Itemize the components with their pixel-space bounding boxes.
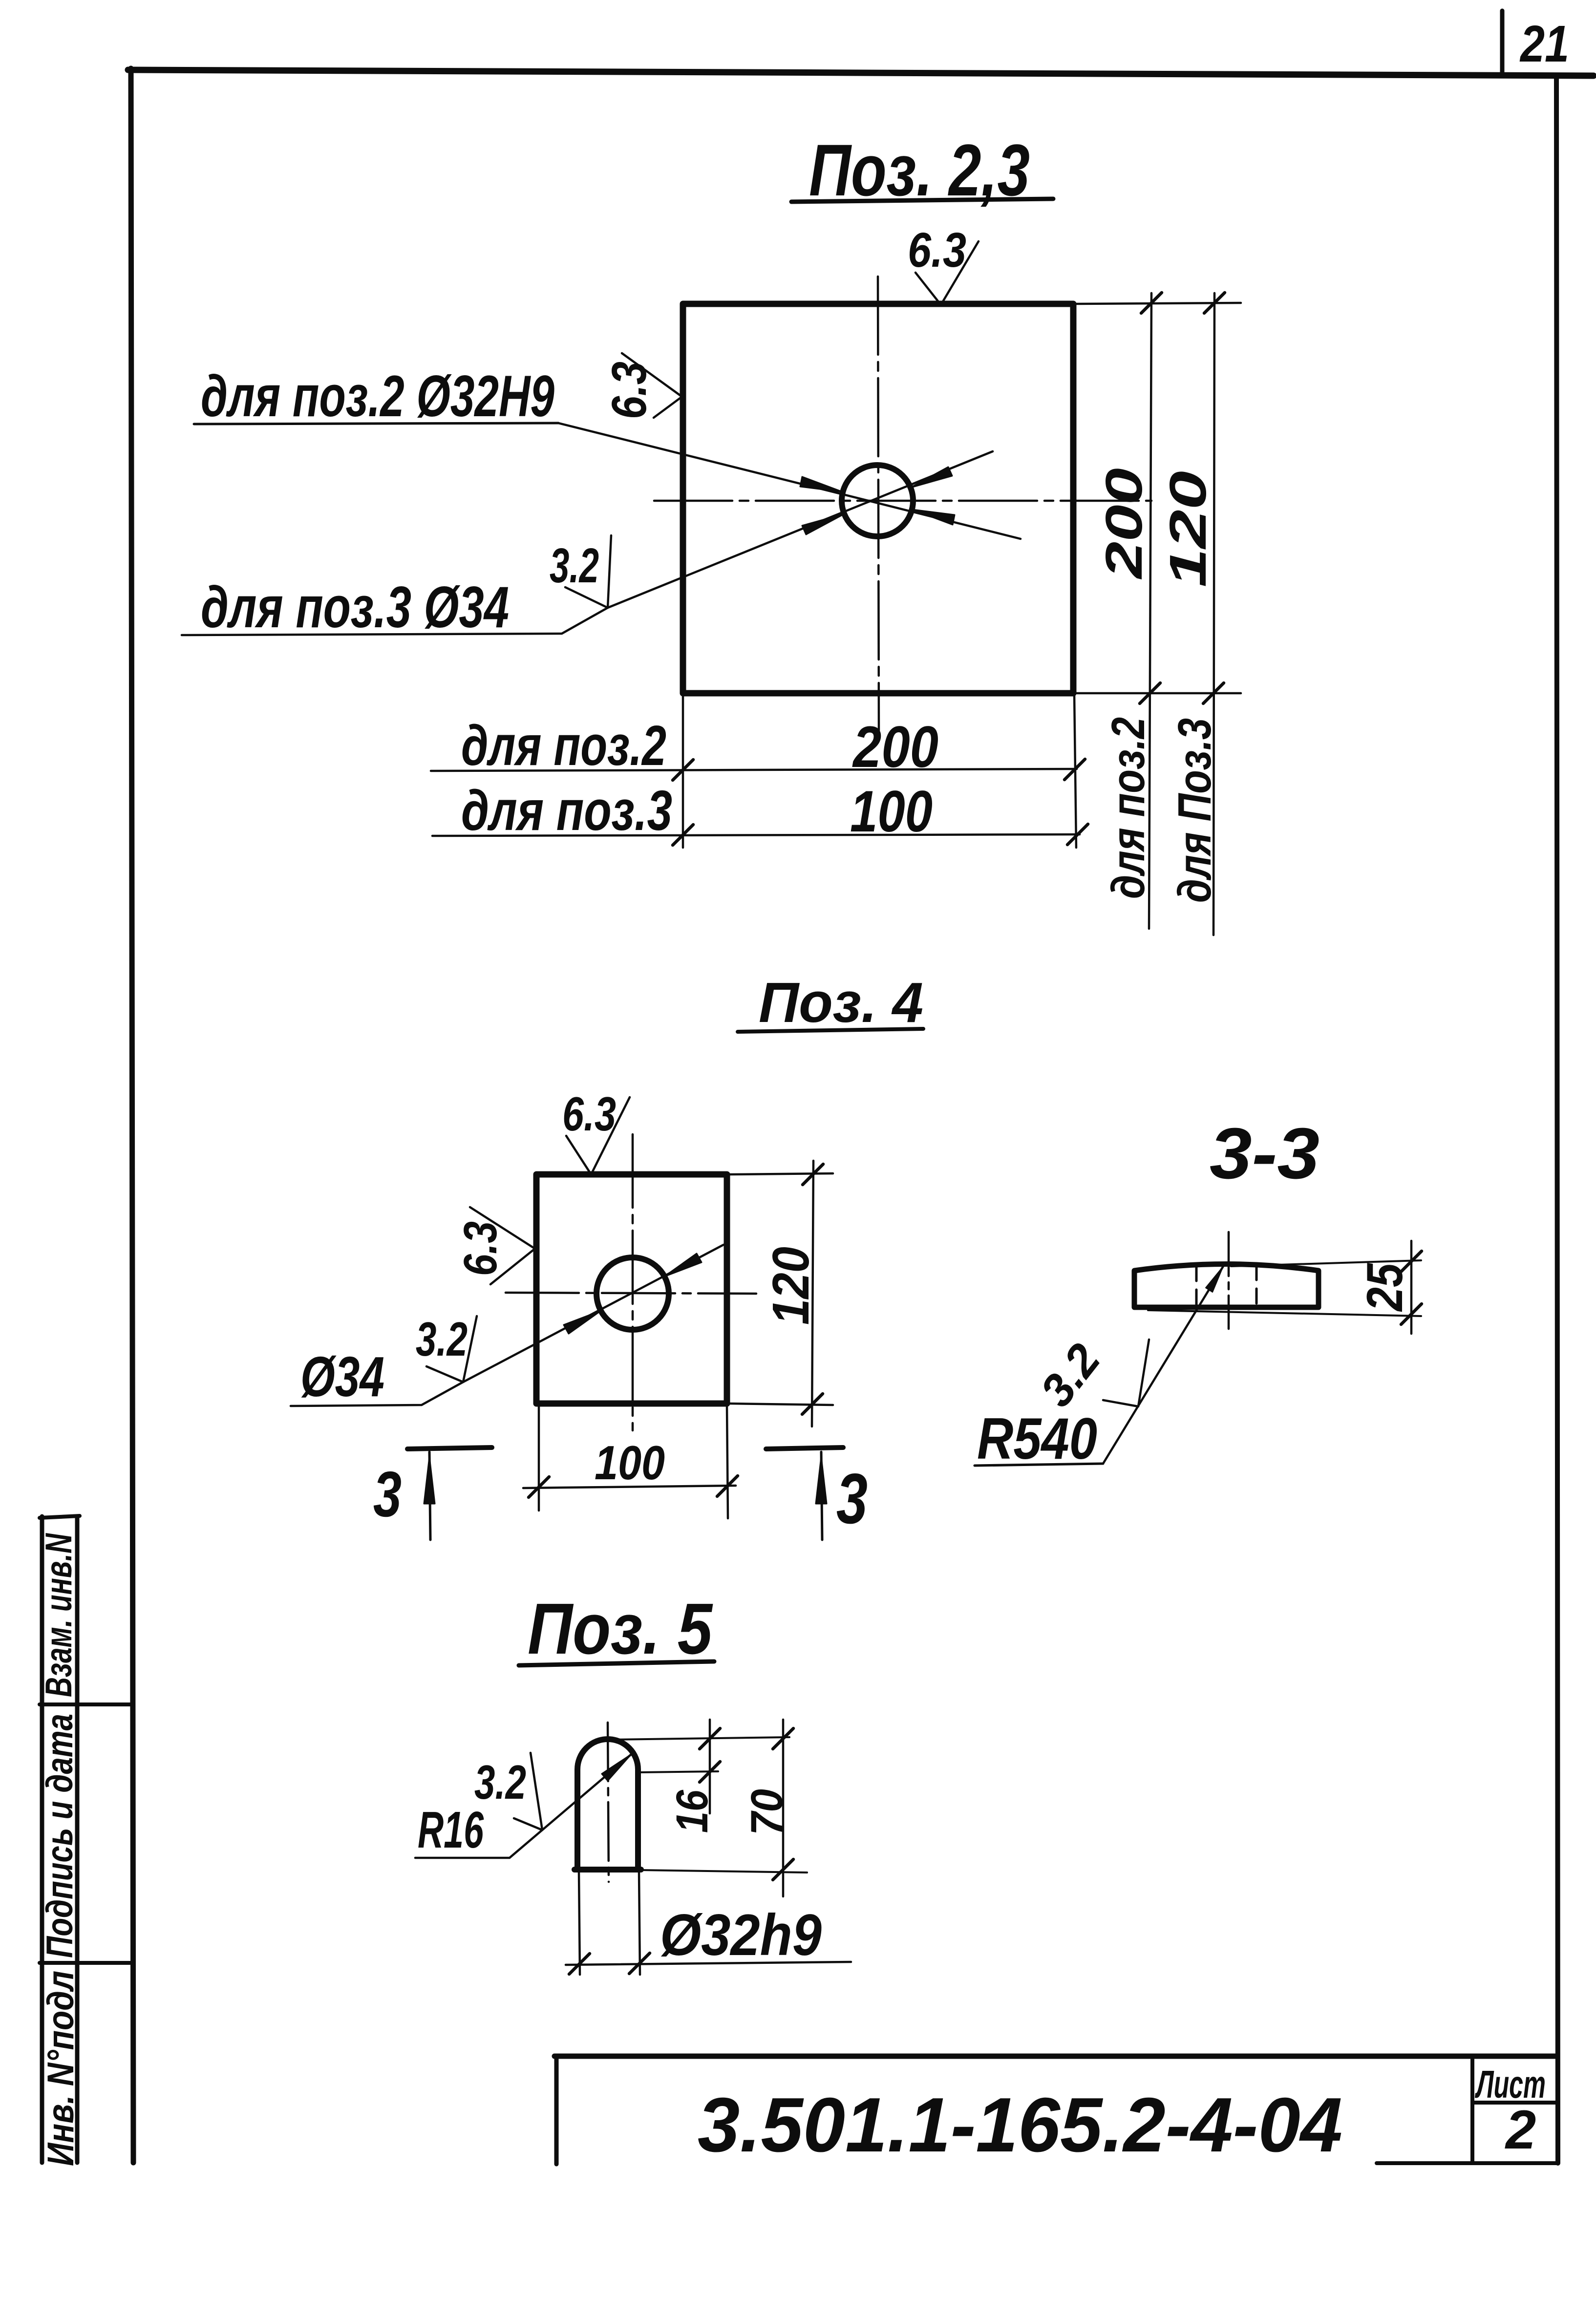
title block left edge xyxy=(554,2056,559,2164)
svg-text:Поз. 4: Поз. 4 xyxy=(759,971,923,1034)
tick 100 right xyxy=(717,1476,738,1496)
section mark right bar xyxy=(766,1447,843,1449)
section mark right line xyxy=(821,1452,822,1540)
tick dim1 left xyxy=(673,760,693,780)
arrow A left xyxy=(800,477,843,492)
dim 100 ext right xyxy=(727,1405,728,1518)
bottom dim line 1 xyxy=(431,769,1077,771)
dim 120 line xyxy=(812,1161,813,1426)
tick 16 top xyxy=(700,1728,720,1749)
лист cell horizontal divider xyxy=(1472,2101,1556,2105)
arrow Ф34 lower-left xyxy=(564,1311,601,1334)
dim line Ф32h9 xyxy=(566,1962,851,1965)
pin centerline xyxy=(608,1723,609,1882)
svg-text:3: 3 xyxy=(373,1458,402,1530)
tick 16 bottom xyxy=(700,1762,720,1782)
tick dim1 right xyxy=(1064,759,1085,780)
svg-text:6.3: 6.3 xyxy=(602,362,657,419)
tick Ф32 left xyxy=(569,1954,590,1974)
R540 arrow xyxy=(1206,1266,1223,1292)
tick 25 top xyxy=(1401,1251,1422,1272)
svg-text:21: 21 xyxy=(1519,15,1569,73)
right dim extension top xyxy=(1075,303,1241,304)
tick 100 left xyxy=(529,1477,549,1497)
roughness 6.3 top check xyxy=(915,241,979,305)
tick 200 top xyxy=(1141,293,1162,313)
svg-text:120: 120 xyxy=(1159,471,1217,587)
R16 arrow xyxy=(602,1755,631,1781)
leader line для поз.3 xyxy=(182,451,993,635)
section mark left bar xyxy=(407,1447,492,1449)
svg-text:100: 100 xyxy=(850,779,933,844)
roughness 3.2 check Поз.5 xyxy=(514,1753,542,1830)
section mark left arrow xyxy=(424,1457,435,1504)
svg-text:для поз.2: для поз.2 xyxy=(461,714,666,777)
svg-text:Инв. N°подл: Инв. N°подл xyxy=(40,1971,82,2166)
arrow Ф34 upper-right xyxy=(664,1254,702,1277)
svg-text:200: 200 xyxy=(852,714,938,780)
svg-text:для поз.3 Ø34: для поз.3 Ø34 xyxy=(201,574,509,640)
bottom ext line left xyxy=(682,693,684,848)
stamp divider 2 xyxy=(40,1961,131,1965)
hidden hole line right xyxy=(1256,1265,1258,1310)
tick 120 top xyxy=(1204,293,1225,313)
svg-text:100: 100 xyxy=(595,1436,665,1489)
svg-text:6.3: 6.3 xyxy=(908,223,966,277)
svg-text:6.3: 6.3 xyxy=(454,1221,507,1276)
roughness 6.3 top check Поз.4 xyxy=(566,1097,630,1174)
svg-text:70: 70 xyxy=(742,1789,792,1835)
dim 100 line xyxy=(523,1486,736,1488)
ext below left xyxy=(579,1872,580,1975)
лист cell vertical divider xyxy=(1470,2056,1474,2163)
svg-text:25: 25 xyxy=(1357,1262,1413,1312)
stamp column left line xyxy=(40,1516,44,2163)
svg-text:3.501.1-165.2-4-04: 3.501.1-165.2-4-04 xyxy=(698,2082,1342,2168)
svg-text:R540: R540 xyxy=(977,1406,1097,1471)
tick 200 bottom xyxy=(1140,683,1160,703)
dim 100 ext left xyxy=(538,1405,540,1511)
frame top border xyxy=(128,70,1594,76)
title Поз.4 underline xyxy=(738,1029,923,1032)
title block bottom line partial xyxy=(1377,2161,1556,2165)
tick dim2 right xyxy=(1067,824,1088,845)
roughness 6.3 left check xyxy=(622,353,682,418)
bottom ext line right xyxy=(1074,693,1076,848)
stamp divider 1 xyxy=(40,1702,131,1706)
svg-text:Ø34: Ø34 xyxy=(300,1345,384,1408)
stamp top cap xyxy=(40,1516,80,1518)
dim 25 ext bottom xyxy=(1148,1310,1421,1316)
dim 120 ext bottom xyxy=(729,1404,833,1405)
tick dim2 left xyxy=(673,825,693,845)
hidden hole line left xyxy=(1195,1266,1198,1310)
roughness 3.2 check Поз.4 xyxy=(426,1316,477,1382)
svg-text:для поз.2: для поз.2 xyxy=(1102,717,1154,899)
tick Ф32 right xyxy=(629,1953,650,1974)
vertical centerline xyxy=(878,277,879,730)
dim 16 line xyxy=(709,1720,711,1813)
arrow B lower-left xyxy=(802,514,844,534)
dim 25 ext top xyxy=(1231,1260,1421,1266)
svg-text:3.2: 3.2 xyxy=(416,1312,468,1366)
leader line для поз.2 xyxy=(558,423,1021,539)
leader Ф34 xyxy=(291,1245,724,1406)
dim 25 line xyxy=(1410,1241,1413,1334)
R540 underline xyxy=(975,1464,1103,1466)
bottom dim line 2 xyxy=(432,834,1080,836)
R540 leader xyxy=(1103,1266,1223,1464)
roughness 6.3 left check Поз.4 xyxy=(470,1207,535,1284)
svg-text:2: 2 xyxy=(1505,2099,1536,2160)
svg-text:3-3: 3-3 xyxy=(1210,1113,1319,1194)
right dim extension bottom xyxy=(1075,692,1241,695)
tick 120 top xyxy=(803,1164,823,1185)
svg-text:Подпись и дата: Подпись и дата xyxy=(39,1714,81,1958)
plate Поз.2,3 outline xyxy=(683,304,1073,693)
title underline xyxy=(791,199,1053,202)
dim 16 ext mid xyxy=(638,1771,718,1772)
plate Поз.4 outline xyxy=(536,1174,727,1404)
svg-text:для поз.2 Ø32Н9: для поз.2 Ø32Н9 xyxy=(201,363,554,429)
dim line 120 vertical xyxy=(1213,293,1214,935)
frame left border xyxy=(131,68,133,2163)
dim 120 ext top xyxy=(729,1173,833,1174)
arrow A right xyxy=(912,510,955,525)
svg-text:200: 200 xyxy=(1095,468,1153,580)
horizontal centerline xyxy=(654,500,1151,502)
title block top line xyxy=(554,2054,1556,2059)
frame right border xyxy=(1556,78,1558,2163)
roughness 3.2 check 3-3 xyxy=(1103,1340,1149,1406)
section mark left line xyxy=(429,1452,430,1540)
svg-text:3.2: 3.2 xyxy=(550,538,599,593)
svg-text:Ø32h9: Ø32h9 xyxy=(660,1902,822,1968)
section bar shape xyxy=(1134,1264,1319,1308)
svg-text:R16: R16 xyxy=(418,1801,484,1859)
dim 70 ext bottom xyxy=(641,1870,807,1872)
dim 16 ext top xyxy=(610,1737,789,1740)
vertical centerline Поз.4 xyxy=(632,1134,634,1430)
hole circle Поз.4 xyxy=(596,1257,669,1330)
section mark right arrow xyxy=(816,1457,827,1504)
svg-text:3: 3 xyxy=(836,1459,868,1538)
label underline для поз.2 xyxy=(194,423,558,424)
svg-text:120: 120 xyxy=(762,1247,820,1325)
page number cell divider xyxy=(1500,11,1505,76)
ext below right xyxy=(639,1872,640,1975)
roughness 3.2 check xyxy=(565,535,611,608)
horizontal centerline Поз.4 xyxy=(506,1293,756,1294)
svg-text:Поз. 5: Поз. 5 xyxy=(528,1589,713,1669)
tick 120 bottom xyxy=(1203,683,1224,703)
arrow B upper-right xyxy=(911,467,952,488)
pin Поз.5 outline xyxy=(577,1739,638,1870)
hole circle Поз.2,3 xyxy=(842,465,913,536)
tick 25 bottom xyxy=(1401,1304,1422,1324)
tick 70 bottom xyxy=(773,1859,793,1880)
dim 70 line xyxy=(782,1720,785,1896)
dim line 200 vertical xyxy=(1149,293,1151,929)
R16 leader xyxy=(415,1755,631,1858)
title Поз.5 underline xyxy=(519,1661,714,1665)
svg-text:для поз.3: для поз.3 xyxy=(461,779,672,842)
pin bottom line xyxy=(575,1867,641,1872)
section centerline xyxy=(1228,1232,1230,1329)
svg-text:Взам. инв.N: Взам. инв.N xyxy=(38,1532,80,1697)
svg-text:16: 16 xyxy=(667,1789,717,1833)
svg-text:3.2: 3.2 xyxy=(1030,1334,1110,1416)
svg-text:для Поз.3: для Поз.3 xyxy=(1169,718,1221,903)
stamp column right line xyxy=(75,1516,80,2163)
tick 120 bottom xyxy=(802,1394,823,1414)
svg-text:6.3: 6.3 xyxy=(562,1087,616,1141)
svg-text:3.2: 3.2 xyxy=(474,1755,526,1809)
tick 70 top xyxy=(773,1728,793,1749)
